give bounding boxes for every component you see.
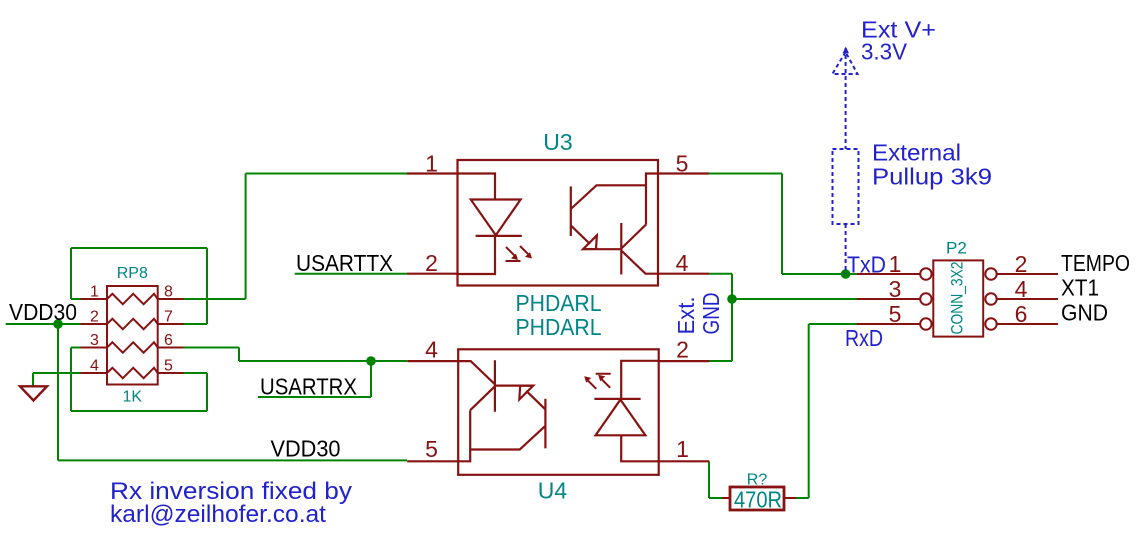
svg-text:TEMPO: TEMPO [1061,250,1130,276]
svg-text:U4: U4 [538,478,568,504]
svg-text:1: 1 [676,436,689,462]
svg-text:USARTRX: USARTRX [260,374,357,400]
svg-text:470R: 470R [734,487,782,513]
svg-text:Ext.: Ext. [673,297,699,335]
svg-text:USARTTX: USARTTX [296,250,393,276]
svg-text:4: 4 [90,358,99,375]
svg-text:5: 5 [164,358,173,375]
svg-text:3.3V: 3.3V [861,39,908,65]
svg-text:PHDARL: PHDARL [516,314,602,340]
svg-text:4: 4 [1015,276,1028,302]
svg-text:5: 5 [676,151,689,177]
svg-text:GND: GND [1061,300,1108,326]
svg-text:RxD: RxD [845,325,883,351]
svg-text:RP8: RP8 [117,265,148,282]
svg-text:1K: 1K [123,389,143,406]
svg-text:2: 2 [425,250,438,276]
svg-text:PHDARL: PHDARL [516,290,602,316]
svg-text:karl@zeilhofer.co.at: karl@zeilhofer.co.at [110,501,326,528]
svg-text:TxD: TxD [847,252,886,278]
svg-text:5: 5 [889,301,902,327]
svg-text:2: 2 [1015,251,1028,277]
svg-text:7: 7 [164,309,173,326]
svg-text:Pullup 3k9: Pullup 3k9 [872,164,992,190]
svg-text:3: 3 [90,332,99,349]
svg-text:VDD30: VDD30 [9,299,77,325]
svg-text:R?: R? [747,472,768,489]
svg-text:CONN_3X2: CONN_3X2 [948,262,967,335]
svg-text:4: 4 [425,337,438,363]
svg-text:3: 3 [889,276,902,302]
svg-text:P2: P2 [946,239,967,258]
svg-text:External: External [872,140,961,166]
svg-text:1: 1 [889,251,902,277]
svg-text:6: 6 [1015,301,1028,327]
svg-text:8: 8 [164,284,173,301]
svg-text:5: 5 [425,436,438,462]
svg-text:VDD30: VDD30 [271,436,341,462]
svg-text:2: 2 [90,309,99,326]
svg-text:GND: GND [698,293,724,335]
svg-text:XT1: XT1 [1061,275,1099,301]
svg-text:1: 1 [90,284,99,301]
svg-text:U3: U3 [543,129,572,155]
svg-text:4: 4 [676,250,689,276]
svg-text:6: 6 [164,332,173,349]
svg-text:2: 2 [676,337,689,363]
svg-text:1: 1 [425,151,438,177]
